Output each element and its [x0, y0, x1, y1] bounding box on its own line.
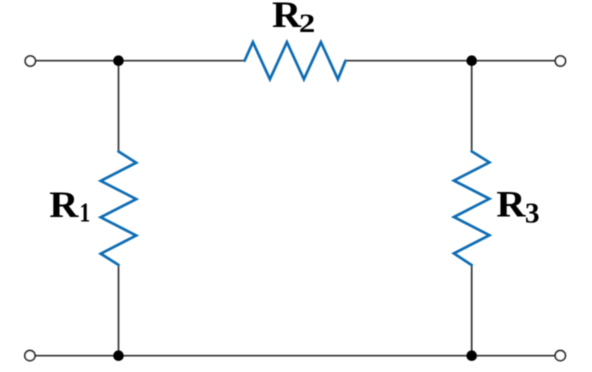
node dot: top-right junction: [466, 55, 477, 66]
resistor R2 zigzag: [245, 42, 346, 79]
resistor R3 zigzag: [454, 151, 490, 265]
svg-text:R: R: [49, 186, 79, 226]
wire top rail: right junction to right terminal: [472, 60, 561, 62]
wire bottom rail: left terminal to left junction: [30, 355, 119, 357]
terminal: bottom-left open circle: [25, 351, 35, 361]
wire top rail: left terminal to left junction: [30, 60, 118, 62]
wire top rail: left junction to R2: [119, 60, 245, 62]
node dot: bottom-right junction: [466, 350, 477, 361]
node dot: bottom-left junction: [113, 350, 124, 361]
svg-text:2: 2: [299, 10, 315, 38]
svg-text:R: R: [496, 185, 526, 225]
svg-text:3: 3: [525, 198, 540, 229]
wire right branch lower: [471, 265, 473, 356]
resistor R1 zigzag: [101, 152, 137, 265]
terminal: top-right open circle: [555, 56, 565, 66]
node dot: top-left junction: [113, 55, 124, 66]
wire top rail: R2 to right junction: [346, 60, 472, 62]
terminal: bottom-right open circle: [555, 351, 565, 361]
svg-text:R: R: [272, 0, 302, 35]
wire left branch lower: [118, 265, 120, 356]
terminal: top-left open circle: [25, 56, 35, 66]
wire bottom rail: right junction to right terminal: [472, 355, 561, 357]
svg-text:1: 1: [79, 198, 90, 228]
wire right branch upper: [471, 61, 473, 152]
wire bottom rail: left junction to right junction: [119, 355, 472, 357]
wire left branch upper: [118, 61, 120, 152]
